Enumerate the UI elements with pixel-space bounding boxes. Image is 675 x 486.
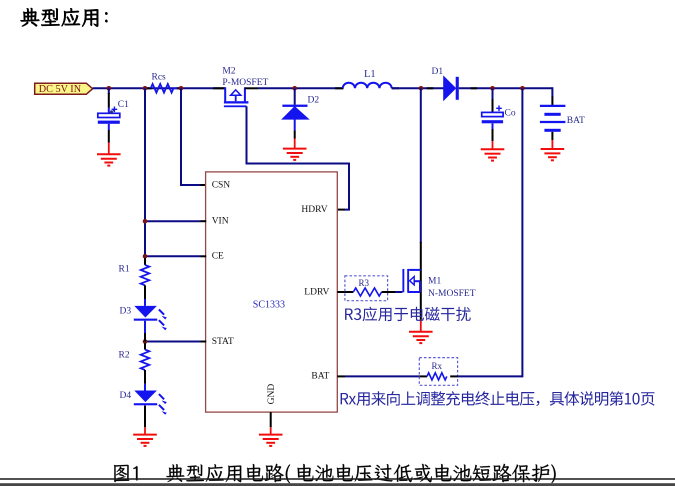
wire LDRV to R3	[337, 291, 345, 293]
wire Co to ground (pin)	[492, 129, 494, 141]
wire switch node to M1 drain	[420, 88, 422, 243]
capacitor Co	[482, 88, 503, 129]
CSN pin stub	[201, 184, 207, 186]
LED D4	[134, 384, 167, 415]
svg-text:Co: Co	[505, 109, 516, 119]
wire D4 to ground (pin)	[144, 406, 146, 428]
title 典型应用:	[21, 8, 108, 27]
resistor R3 (dashed box)	[345, 276, 388, 301]
footer bar	[0, 483, 675, 486]
svg-text:GND: GND	[267, 384, 277, 405]
svg-text:CSN: CSN	[212, 180, 231, 190]
annotation R3 note	[345, 307, 471, 322]
resistor Rcs	[151, 84, 178, 93]
wire VIN	[145, 220, 201, 222]
svg-text:M2: M2	[222, 67, 235, 77]
resistor R1	[144, 258, 146, 265]
svg-text:D4: D4	[120, 391, 132, 401]
svg-text:STAT: STAT	[212, 337, 234, 347]
transistor M2 P-MOSFET	[213, 87, 258, 107]
svg-text:R1: R1	[119, 265, 130, 275]
wire Rx to battery rail	[450, 375, 458, 377]
svg-text:D2: D2	[308, 96, 320, 106]
wire: switch node rail	[258, 87, 343, 89]
junction node D2 tap	[292, 86, 297, 91]
junction STAT	[143, 339, 148, 344]
svg-text:Rcs: Rcs	[152, 72, 167, 82]
wire C1 to ground (pin)	[108, 130, 110, 143]
op-amp/IC U1 SC1333 box	[206, 172, 338, 412]
junction VIN	[143, 219, 148, 224]
svg-text:VIN: VIN	[212, 217, 229, 227]
wire: input rail	[93, 87, 226, 89]
svg-text:BAT: BAT	[311, 372, 329, 382]
svg-text:L1: L1	[364, 69, 376, 80]
ground (BAT)	[541, 140, 565, 160]
battery BAT	[540, 106, 566, 132]
resistor R2	[144, 343, 146, 350]
wire line A (rail to VIN/CE/LED chain)	[144, 88, 146, 260]
svg-text:BAT: BAT	[567, 116, 585, 126]
svg-text:D1: D1	[432, 67, 444, 77]
ground (M1)	[409, 320, 433, 344]
annotation Rx note	[341, 391, 655, 406]
junction node Co tap	[490, 86, 495, 91]
svg-text:DC 5V IN: DC 5V IN	[39, 84, 82, 95]
power flag DC 5V IN	[35, 83, 93, 95]
junction CE	[143, 254, 148, 259]
diode D2	[282, 88, 308, 130]
svg-text:P-MOSFET: P-MOSFET	[222, 78, 268, 88]
ground (D2)	[283, 139, 307, 160]
ground (Co)	[481, 141, 505, 161]
svg-text:HDRV: HDRV	[301, 205, 327, 215]
transistor M1 N-MOSFET	[402, 269, 420, 293]
caption underline	[0, 478, 675, 480]
wire BAT pin to Rx	[337, 375, 345, 377]
junction node C1 tap	[107, 86, 112, 91]
junction node Rcs left / line A	[143, 86, 148, 91]
wire: Rcs is inline (zigzag replaces wire 150.7-177.3)	[145, 87, 152, 89]
wire L1 to D1	[392, 87, 444, 89]
wire line B to CSN	[181, 88, 201, 185]
ground (IC GND)	[259, 427, 283, 446]
svg-text:C1: C1	[118, 100, 129, 110]
diode D1	[444, 77, 459, 100]
ground (LED chain)	[133, 427, 157, 446]
wire GND pin	[270, 412, 272, 427]
wire CE	[145, 255, 201, 257]
svg-text:N-MOSFET: N-MOSFET	[428, 289, 476, 299]
figure caption	[114, 464, 556, 484]
ground (C1)	[97, 143, 121, 166]
capacitor C1	[98, 88, 120, 130]
wire D1 to Co/BAT rail	[459, 87, 553, 89]
C1 plus sign	[112, 107, 118, 113]
wire D2 to ground (pin)	[294, 130, 296, 138]
svg-text:D3: D3	[120, 307, 132, 317]
svg-text:CE: CE	[212, 252, 224, 262]
wire M2 gate to HDRV	[247, 106, 350, 209]
Co plus sign	[496, 106, 502, 112]
svg-text:SC1333: SC1333	[253, 299, 285, 310]
HDRV pin stub	[337, 209, 344, 211]
svg-text:R3: R3	[359, 278, 370, 288]
wire rail corner to battery	[551, 88, 552, 97]
resistor Rx (dashed box)	[419, 358, 457, 386]
svg-text:M1: M1	[428, 277, 441, 287]
junction node Rcs right / line B	[179, 86, 184, 91]
wire R3 to M1 gate	[382, 291, 395, 293]
inductor L1	[335, 87, 344, 89]
svg-text:R2: R2	[119, 351, 130, 361]
svg-text:LDRV: LDRV	[304, 287, 329, 297]
junction node feedback tap	[520, 86, 525, 91]
junction node M1 drain tap	[419, 86, 424, 91]
svg-text:Rx: Rx	[432, 361, 443, 371]
wire STAT	[145, 341, 201, 343]
LED D3	[134, 299, 167, 333]
wire battery to ground (pin)	[551, 132, 553, 140]
wire D3 to STAT node	[144, 333, 146, 342]
